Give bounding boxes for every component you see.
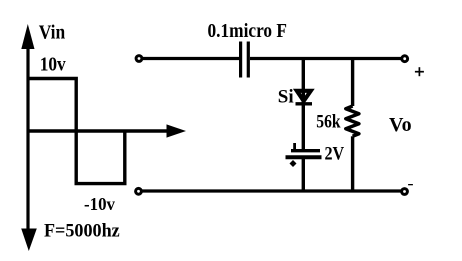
svg-text:Si: Si xyxy=(278,87,294,108)
battery plus tick xyxy=(293,143,296,151)
input waveform horizontal axis xyxy=(28,129,168,132)
vertical axis down arrowhead xyxy=(21,229,37,252)
battery 2V top plate xyxy=(291,149,320,152)
input waveform vertical axis xyxy=(26,42,29,234)
terminal top-right xyxy=(402,56,408,62)
svg-text:0.1micro F: 0.1micro F xyxy=(208,20,288,42)
terminal top-left xyxy=(136,56,142,62)
vertical axis up arrowhead xyxy=(21,24,34,49)
svg-text:F=5000hz: F=5000hz xyxy=(44,221,120,242)
svg-text:56k: 56k xyxy=(316,112,341,133)
svg-text:Vin: Vin xyxy=(39,22,65,44)
top rail wire (right of capacitor) xyxy=(250,57,403,60)
svg-text:Vo: Vo xyxy=(389,114,412,136)
horizontal axis right arrowhead xyxy=(167,124,187,137)
svg-text:2V: 2V xyxy=(325,144,345,165)
resistor branch upper wire xyxy=(351,59,354,107)
resistor lower wire xyxy=(351,136,354,191)
wire battery to bottom rail xyxy=(302,157,305,191)
svg-text:10v: 10v xyxy=(40,54,66,76)
resistor R 56k zigzag xyxy=(346,106,359,136)
battery minus diamond xyxy=(290,160,297,167)
terminal bottom-right xyxy=(402,189,408,195)
svg-text:-10v: -10v xyxy=(84,194,115,214)
label - output polarity xyxy=(408,184,413,185)
square wave trace xyxy=(28,79,125,184)
terminal bottom-left xyxy=(136,188,142,194)
label + output polarity xyxy=(415,71,424,73)
diode D1 Si triangle xyxy=(297,91,311,101)
bottom rail wire xyxy=(141,189,403,192)
top rail wire (left of capacitor) xyxy=(141,57,239,60)
wire diode to battery xyxy=(302,104,305,150)
diode cathode bar xyxy=(296,102,313,105)
diode wire through triangle xyxy=(302,91,305,104)
capacitor C 0.1microF left plate xyxy=(239,42,242,78)
battery 2V bottom plate xyxy=(286,155,322,159)
diode branch upper wire xyxy=(302,59,305,91)
capacitor C 0.1microF right plate xyxy=(247,42,250,78)
